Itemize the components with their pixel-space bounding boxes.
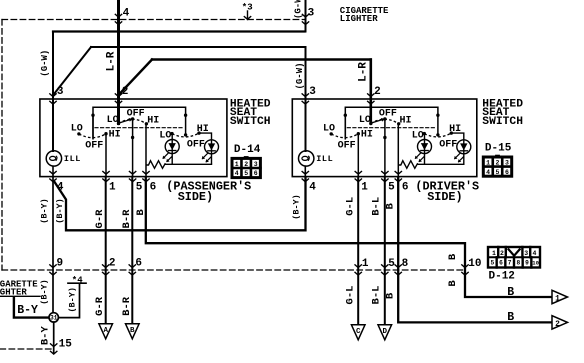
svg-text:HI: HI: [147, 115, 159, 126]
ground A: [99, 324, 113, 339]
label 6: [135, 257, 142, 269]
pin 5 junction dot driver: [383, 136, 386, 139]
label 8: [402, 258, 409, 270]
node 8 crossing arrows: [395, 264, 402, 275]
rail junction dots driver: [344, 114, 440, 117]
pin 6 exit arrows driver: [395, 171, 402, 182]
svg-text:ILL: ILL: [64, 154, 81, 164]
pin 6 exit arrows passenger: [142, 171, 149, 182]
label B on riser above: [447, 253, 459, 260]
pin 5 wire inside passenger: [132, 119, 134, 177]
indicator pole arc dashed driver: [424, 133, 451, 137]
selector arm passenger: [119, 118, 133, 123]
pin 3 entry arrows driver: [302, 93, 309, 104]
dashed harness boundary middle: [2, 269, 466, 271]
heater HI contact dot passenger: [104, 132, 107, 135]
svg-text:1: 1: [235, 161, 239, 168]
label 4: [123, 7, 130, 19]
wire *4 stub bar: [68, 282, 86, 284]
label HI indicator passenger: [197, 124, 209, 135]
svg-text:B: B: [447, 280, 459, 287]
heater HI contact dot driver: [357, 132, 360, 135]
svg-text:A: A: [103, 327, 108, 335]
pin 4 exit arrows passenger: [49, 171, 56, 182]
node 15 crossing arrows: [50, 343, 57, 354]
junction 31: [49, 313, 58, 322]
svg-text:OFF: OFF: [439, 140, 457, 151]
heater LO contact dot passenger: [77, 132, 80, 135]
svg-text:D: D: [383, 328, 388, 336]
selector arm driver: [372, 118, 386, 123]
svg-text:B: B: [135, 209, 147, 216]
heater pole arc dashed driver: [331, 134, 358, 138]
switch supply rail driver: [345, 107, 438, 139]
svg-text:LO: LO: [107, 115, 119, 126]
selector pivot dot driver: [369, 122, 372, 125]
svg-text:6: 6: [135, 257, 142, 269]
svg-text:2: 2: [122, 86, 129, 98]
label LO center driver: [359, 115, 371, 126]
svg-text:OFF: OFF: [338, 141, 356, 152]
svg-text:B-Y: B-Y: [40, 326, 52, 346]
svg-text:SIDE): SIDE): [178, 190, 213, 204]
svg-text:4: 4: [235, 170, 239, 177]
label pin 2 passenger: [122, 86, 129, 98]
LED indicator HI driver: [454, 140, 471, 163]
dashed harness boundary bottom left: [0, 348, 53, 350]
dashed harness boundary left: [1, 20, 3, 271]
label 9: [57, 257, 64, 269]
heated seat switch box driver: [292, 99, 477, 177]
wire L-R bus C horizontal: [152, 58, 371, 60]
svg-text:L-R: L-R: [358, 62, 370, 82]
resistor passenger: [146, 161, 166, 169]
label OFF center driver: [379, 109, 397, 120]
heater pole arm driver: [344, 115, 346, 139]
LED indicator LO passenger: [163, 140, 180, 163]
wire *4 branch: [58, 283, 79, 317]
label B-L above: [371, 197, 383, 216]
label (G-W) driver: [295, 62, 305, 89]
text HEATED SEAT SWITCH passenger: [230, 98, 271, 128]
label pin 1 bottom passenger: [109, 181, 116, 193]
node 1 crossing arrows: [355, 264, 362, 275]
label (G-W) passenger: [40, 50, 50, 77]
label ILL driver: [316, 154, 333, 164]
wire cigarette lighter (G-W) vertical: [305, 0, 307, 32]
svg-text:1: 1: [362, 258, 369, 270]
label pin 1 bottom driver: [361, 181, 368, 193]
HI LED wire driver: [451, 133, 464, 164]
svg-text:3: 3: [524, 250, 528, 257]
svg-text:HI: HI: [400, 115, 412, 126]
label OFF indicator driver: [439, 140, 457, 151]
label HI center passenger: [147, 115, 159, 126]
svg-text:2: 2: [374, 86, 381, 98]
svg-text:B: B: [447, 253, 459, 260]
wire B driver pin 6 to output 2: [398, 177, 553, 323]
LED indicator LO driver: [415, 140, 432, 163]
label OFF heater driver: [338, 141, 356, 152]
svg-text:3: 3: [505, 159, 509, 166]
wire L-R diagonal from passenger pin 2: [119, 60, 153, 96]
selector HI contact dot driver: [397, 122, 400, 125]
switch supply rail passenger: [93, 107, 186, 139]
label LO heater driver: [323, 124, 335, 135]
svg-text:1: 1: [555, 294, 560, 303]
label LO indicator passenger: [159, 131, 171, 142]
selector HI contact dot passenger: [145, 122, 148, 125]
label L-R driver: [358, 62, 370, 82]
svg-text:(G-W): (G-W): [40, 50, 50, 77]
pin 1 exit arrows passenger: [102, 171, 109, 182]
label B output 1: [507, 286, 514, 299]
label 2: [109, 257, 116, 269]
label G-R above: [94, 209, 106, 229]
label (G-W) clipped top: [294, 0, 304, 19]
output arrow 1: [552, 290, 568, 303]
svg-text:5: 5: [244, 170, 248, 177]
heated seat switch box passenger: [40, 99, 227, 177]
label (B-Y) *4 branch: [68, 287, 78, 313]
label LO indicator driver: [412, 131, 424, 142]
svg-text:3: 3: [254, 161, 258, 168]
pin 5 exit arrows passenger: [129, 171, 136, 182]
svg-text:B: B: [507, 311, 514, 324]
pin 6 wire inside driver: [397, 124, 399, 177]
svg-text:2: 2: [244, 161, 248, 168]
svg-text:(B-Y): (B-Y): [40, 279, 50, 305]
svg-text:B: B: [507, 286, 514, 299]
wire G-R passenger pin 1 down: [105, 177, 107, 324]
svg-text:B-L: B-L: [371, 286, 383, 305]
pin 1 wire inside passenger: [105, 134, 107, 177]
svg-text:3: 3: [308, 7, 315, 19]
label *3: [242, 3, 253, 13]
label B-R below: [121, 296, 133, 316]
svg-text:D-15: D-15: [485, 143, 512, 155]
label B-Y cigarette: [17, 304, 38, 317]
svg-text:3: 3: [309, 86, 316, 98]
wire B-L driver pin 5 down: [384, 177, 386, 324]
svg-text:31: 31: [50, 315, 58, 322]
wire G-L driver pin 1 down: [357, 177, 359, 324]
svg-text:6: 6: [150, 181, 157, 193]
svg-text:LO: LO: [323, 124, 335, 135]
svg-text:G-L: G-L: [345, 197, 357, 216]
label L-R left: [105, 51, 117, 71]
svg-text:OFF: OFF: [187, 140, 205, 151]
cigarette lighter label underline: [0, 295, 40, 297]
connector D-14: [232, 156, 260, 178]
svg-text:2: 2: [496, 159, 500, 166]
heater pole arc dashed passenger: [79, 134, 106, 138]
label pin 4 bottom passenger: [57, 181, 64, 193]
node 3 cigarette crossing arrows: [302, 14, 309, 25]
wire B-R passenger pin 5 down: [131, 177, 133, 324]
pin 4 exit arrows driver: [302, 171, 309, 182]
svg-text:5: 5: [496, 169, 500, 176]
svg-text:(B-Y): (B-Y): [40, 198, 50, 224]
text CIGARETTE LIGHTER top: [340, 6, 389, 24]
svg-text:(G-W): (G-W): [294, 0, 304, 19]
text (PASSENGER'S SIDE): [166, 179, 251, 204]
pin 6 wire inside passenger: [145, 124, 147, 177]
pin 1 wire inside driver: [357, 134, 359, 177]
node 6 crossing arrows: [129, 264, 136, 275]
svg-text:LO: LO: [71, 124, 83, 135]
label (B-Y) driver: [291, 194, 301, 220]
label OFF heater passenger: [85, 141, 103, 152]
label 5: [388, 258, 395, 270]
label pin 6 bottom passenger: [150, 181, 157, 193]
wire *3 stub: [247, 11, 249, 20]
node 10 crossing arrows: [461, 264, 468, 275]
svg-text:OFF: OFF: [379, 109, 397, 120]
label B driver below: [385, 292, 397, 299]
wire G-W drop to driver pin 3: [305, 47, 307, 151]
text CIGARETTE LIGHTER bottom (clipped): [0, 279, 38, 297]
svg-text:B: B: [385, 203, 397, 210]
wire B-Y passenger pin 4 down: [52, 177, 54, 313]
svg-text:8: 8: [402, 258, 409, 270]
wire L-R drop to driver pin 2: [369, 60, 372, 124]
node 4 crossing arrows: [115, 14, 122, 25]
label pin 4 bottom driver: [309, 181, 316, 193]
selector arc dashed passenger: [119, 119, 147, 124]
indicator LO contact dot passenger: [170, 132, 173, 135]
label 3 cigarette: [308, 7, 315, 19]
label D-12: [489, 271, 515, 283]
svg-text:3: 3: [57, 86, 64, 98]
node 5 crossing arrows: [381, 264, 388, 275]
label G-L above: [345, 197, 357, 216]
label *4: [72, 275, 83, 285]
node 9 crossing arrows: [49, 264, 56, 275]
indicator OFF contact dot passenger: [184, 133, 187, 136]
svg-text:C: C: [356, 328, 361, 336]
label OFF indicator passenger: [187, 140, 205, 151]
pin 2 entry arrows driver: [367, 93, 374, 104]
wire ILL to pin 4 passenger: [52, 166, 54, 176]
text (DRIVER'S SIDE): [415, 179, 479, 204]
svg-text:15: 15: [59, 338, 73, 350]
label pin 5 bottom passenger: [136, 181, 143, 193]
resistor driver: [398, 161, 418, 169]
label ILL passenger: [64, 154, 81, 164]
svg-text:(B-Y): (B-Y): [68, 287, 78, 313]
svg-text:1: 1: [492, 250, 496, 257]
svg-text:6: 6: [254, 170, 258, 177]
node *3 crossing arrow: [244, 16, 251, 19]
selector OFF contact dot passenger: [131, 117, 134, 120]
svg-text:5: 5: [490, 260, 494, 267]
LO LED wire passenger: [171, 134, 173, 165]
indicator HI contact dot passenger: [197, 131, 200, 134]
svg-text:B-L: B-L: [371, 197, 383, 216]
svg-text:6: 6: [499, 260, 503, 267]
svg-text:SWITCH: SWITCH: [482, 116, 523, 128]
svg-text:ILL: ILL: [316, 154, 333, 164]
svg-text:10: 10: [468, 258, 481, 270]
wire G-W drop to passenger pin 3: [52, 32, 54, 152]
wire B passenger pin 6 to D-12 and output 1: [146, 177, 553, 297]
LED indicator HI passenger: [202, 140, 219, 163]
label pin 3 passenger: [57, 86, 64, 98]
HI LED wire passenger: [199, 133, 212, 164]
label D-14: [234, 144, 261, 156]
indicator LO contact dot driver: [423, 132, 426, 135]
svg-text:5: 5: [388, 181, 395, 193]
text HEATED SEAT SWITCH driver: [482, 98, 523, 128]
svg-text:9: 9: [57, 257, 64, 269]
label B-R above: [121, 209, 133, 229]
label pin 2 driver: [374, 86, 381, 98]
svg-text:L-R: L-R: [105, 51, 117, 71]
svg-text:B-Y: B-Y: [17, 304, 38, 317]
label pin 6 bottom driver: [402, 181, 409, 193]
ground C: [351, 325, 365, 340]
pin 3 entry arrows passenger: [49, 93, 56, 104]
svg-text:(G-W): (G-W): [295, 62, 305, 89]
label (B-Y) below dashed: [40, 279, 50, 305]
label LO heater passenger: [71, 124, 83, 135]
LED bottom bus passenger: [165, 163, 211, 165]
connector D-15: [483, 155, 511, 177]
svg-text:HI: HI: [361, 130, 373, 141]
pin 1 exit arrows driver: [355, 171, 362, 182]
svg-text:5: 5: [136, 181, 143, 193]
wire B-Y from cigarette lighter: [14, 296, 49, 317]
label G-R below: [94, 296, 106, 316]
svg-text:G-R: G-R: [94, 209, 106, 229]
label 10: [468, 258, 481, 270]
indicator HI contact dot driver: [450, 131, 453, 134]
svg-text:1: 1: [361, 181, 368, 193]
svg-text:10: 10: [532, 260, 539, 267]
svg-text:7: 7: [508, 260, 512, 267]
label LO center passenger: [107, 115, 119, 126]
label HI indicator driver: [449, 124, 461, 135]
wire G-W bus A horizontal: [53, 30, 305, 32]
svg-text:2: 2: [555, 320, 560, 329]
svg-text:2: 2: [500, 250, 504, 257]
svg-text:B: B: [385, 292, 397, 299]
label B passenger: [135, 209, 147, 216]
label B-Y below junction: [40, 326, 52, 346]
svg-text:LIGHTER: LIGHTER: [340, 14, 378, 24]
label B-L below: [371, 286, 383, 305]
indicator OFF contact dot driver: [436, 133, 439, 136]
svg-text:(B-Y): (B-Y): [291, 194, 301, 220]
label B on riser below: [447, 280, 459, 287]
label pin 3 driver: [309, 86, 316, 98]
ground D: [378, 325, 392, 340]
wire B-Y thick branch to driver pin 4: [53, 177, 305, 231]
svg-text:8: 8: [516, 260, 520, 267]
pin 5 wire inside driver: [384, 119, 386, 177]
svg-text:4: 4: [309, 181, 316, 193]
svg-text:9: 9: [525, 260, 529, 267]
pin 5 exit arrows driver: [381, 171, 388, 182]
svg-text:6: 6: [402, 181, 409, 193]
ground B: [126, 324, 140, 339]
rail junction dots passenger: [91, 114, 187, 117]
heater LO contact dot driver: [330, 132, 333, 135]
label D-15: [485, 143, 512, 155]
wire ILL to pin 4 driver: [304, 166, 306, 176]
label B output 2: [507, 311, 514, 324]
svg-text:OFF: OFF: [127, 109, 145, 120]
svg-text:G-L: G-L: [345, 286, 357, 305]
svg-text:OFF: OFF: [85, 141, 103, 152]
svg-text:4: 4: [123, 7, 130, 19]
svg-text:D-12: D-12: [489, 271, 515, 283]
indicator pole arc dashed passenger: [172, 133, 199, 137]
svg-text:6: 6: [505, 169, 509, 176]
svg-text:SIDE): SIDE): [427, 190, 462, 204]
wire G-W bus B horizontal: [91, 46, 306, 48]
svg-text:LO: LO: [359, 115, 371, 126]
label 15: [59, 338, 73, 350]
label G-L below: [345, 286, 357, 305]
svg-text:(B-Y): (B-Y): [55, 198, 65, 224]
LED bottom bus driver: [418, 163, 464, 165]
svg-text:B: B: [130, 327, 135, 335]
svg-text:B-R: B-R: [121, 296, 133, 316]
label (B-Y) passenger 2: [55, 198, 65, 224]
svg-text:HI: HI: [109, 130, 121, 141]
svg-text:4: 4: [532, 250, 536, 257]
label (B-Y) passenger 1: [40, 198, 50, 224]
LO LED wire driver: [424, 134, 426, 165]
pin 2 entry arrows passenger: [115, 93, 122, 104]
svg-text:B-R: B-R: [121, 209, 133, 229]
dashed harness boundary top: [2, 19, 306, 21]
selector OFF contact dot driver: [383, 117, 386, 120]
ILL lamp passenger: [46, 151, 61, 166]
heater pole arm passenger: [92, 115, 94, 139]
node 2 crossing arrows: [102, 264, 109, 275]
svg-text:SWITCH: SWITCH: [230, 116, 271, 128]
svg-text:1: 1: [109, 181, 116, 193]
svg-text:D-14: D-14: [234, 144, 261, 156]
wire L-R feed vertical (pin 4 from fuse): [117, 0, 120, 124]
pin 5 junction dot passenger: [131, 136, 134, 139]
label OFF center passenger: [127, 109, 145, 120]
svg-text:2: 2: [109, 257, 116, 269]
svg-text:1: 1: [486, 159, 490, 166]
mechanical linkage dashed driver: [347, 127, 436, 129]
ILL lamp driver: [299, 151, 314, 166]
output arrow 2: [552, 316, 568, 329]
svg-text:4: 4: [486, 169, 490, 176]
label pin 5 bottom driver: [388, 181, 395, 193]
mechanical linkage dashed passenger: [95, 127, 184, 129]
connector D-12: [488, 247, 540, 268]
svg-text:G-R: G-R: [94, 296, 106, 316]
svg-text:5: 5: [388, 258, 395, 270]
wire G-W diagonal from passenger pin 3: [53, 47, 91, 95]
wire B-Y junction down: [53, 322, 55, 353]
label HI heater driver: [361, 130, 373, 141]
selector pivot dot passenger: [117, 122, 120, 125]
label HI heater passenger: [109, 130, 121, 141]
selector arc dashed driver: [371, 119, 399, 124]
label B driver above: [385, 203, 397, 210]
label 1: [362, 258, 369, 270]
label HI center driver: [400, 115, 412, 126]
